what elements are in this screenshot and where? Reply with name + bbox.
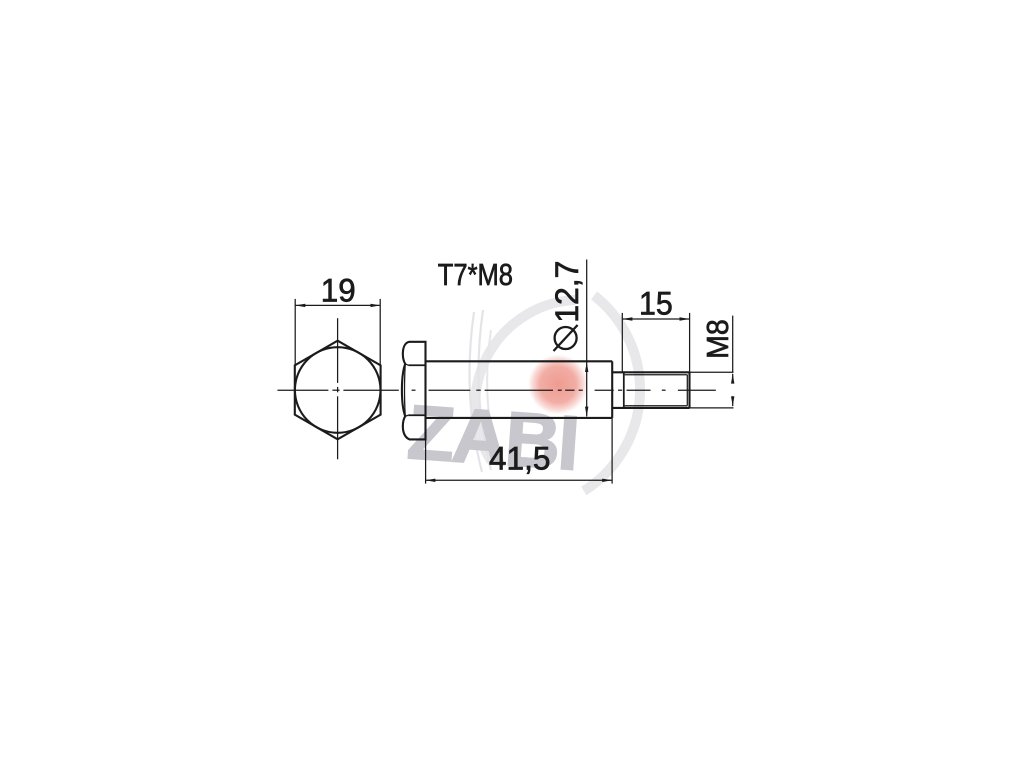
dim 15 dimension line [622,318,689,320]
M8 dimension line and arrows [732,316,734,373]
centerline front view vertical [337,318,339,459]
svg-text:15: 15 [639,286,673,322]
thread inner (minor diameter) lines [625,374,688,376]
hex head front view: hexagon [295,341,381,440]
bolt head face division lines [408,364,425,366]
dim 19 extension lines [294,299,296,366]
centerline front view horizontal [278,389,399,391]
dim 41,5 dimension line [425,479,612,481]
svg-text:19: 19 [321,272,356,308]
thread runout line [623,372,625,408]
bolt head side view outline [402,342,426,440]
diameter symbol [555,327,577,349]
watermark logo ring arc right [584,296,640,492]
thread section outline [612,371,689,373]
M8 text rotated [701,319,735,359]
dim 41,5 extension lines [425,439,427,483]
svg-text:T7*M8: T7*M8 [438,258,513,293]
centerline side view [412,389,716,391]
svg-text:M8: M8 [701,319,735,359]
watermark red dot [528,355,588,415]
bolt head chamfer sliver arc [404,364,407,416]
hex head front view: inscribed circle [295,347,381,433]
dim 19 dimension line [295,304,380,306]
watermark swoosh thin lines [470,312,483,472]
svg-text:41,5: 41,5 [489,440,551,476]
dim diameter 12,7 line [586,260,588,417]
dim diameter 12,7 text rotated [549,261,585,323]
M8 extension lines [690,371,734,373]
bolt head cusp diagonals [405,364,408,365]
watermark ZABI letters [405,389,583,487]
dim 15 extension lines [621,313,623,372]
watermark logo ring arc upper-left [475,300,575,461]
svg-text:12,7: 12,7 [549,261,585,323]
shank outline [426,360,613,362]
